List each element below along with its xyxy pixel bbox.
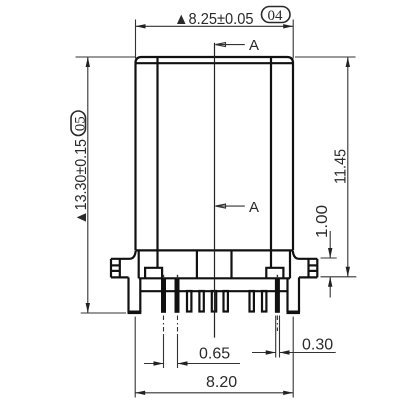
- arrowhead 1.00 lower: [328, 277, 332, 287]
- pedestal left: [145, 268, 162, 279]
- right tab outer edge: [316, 259, 318, 278]
- top dim line 8.25: [136, 25, 294, 27]
- winding flange line left: [156, 58, 158, 268]
- arrowhead 1.00 upper: [328, 248, 332, 258]
- right dim line 11.45: [347, 57, 349, 277]
- left wing bottom: [111, 276, 129, 278]
- left wing top with fillet: [111, 251, 136, 259]
- leader T1: [163, 316, 165, 369]
- arrowhead 0.65 left: [154, 361, 164, 365]
- left leg: [129, 277, 141, 312]
- arrowhead A mid: [216, 204, 226, 208]
- svg-text:1.00: 1.00: [314, 205, 331, 238]
- right leg: [288, 277, 300, 312]
- arrowhead 8.20 right: [283, 391, 293, 395]
- right leg thick bottom: [287, 310, 301, 314]
- left tab inner divider: [119, 259, 121, 278]
- section center line A-A: [214, 43, 216, 338]
- base divider left: [196, 250, 198, 278]
- left dim extension bottom: [81, 312, 126, 314]
- pedestal right: [266, 268, 283, 279]
- wire stub T1: [163, 275, 165, 279]
- pin P6: [212, 291, 216, 312]
- base right edge: [289, 250, 291, 278]
- arrowhead 13.30 bottom: [86, 303, 90, 313]
- winding flange line right: [270, 58, 272, 268]
- svg-text:05: 05: [72, 116, 88, 131]
- A callout top shaft: [216, 44, 245, 46]
- right wing bottom: [299, 276, 317, 278]
- svg-text:0.65: 0.65: [199, 346, 230, 363]
- ext lines 0.30: [276, 316, 280, 358]
- bobbin body outline: [136, 57, 294, 250]
- top dim extension right: [292, 20, 294, 59]
- svg-text:04: 04: [268, 8, 284, 24]
- dim line 1.00 lower shaft: [329, 277, 331, 298]
- dim line 0.30: [252, 352, 336, 354]
- thin pin T2: [175, 278, 180, 313]
- left tab cell line 2: [111, 270, 120, 272]
- A callout mid shaft: [216, 205, 245, 207]
- dim line 0.65: [144, 363, 240, 365]
- svg-text:0.30: 0.30: [302, 337, 333, 354]
- left tab outer edge: [110, 259, 112, 278]
- right tab cell line 1: [309, 264, 318, 266]
- arrowhead 8.20 left: [135, 391, 145, 395]
- left tab cell line 1: [111, 264, 120, 266]
- right dim extension bottom: [321, 276, 357, 278]
- base divider right: [230, 250, 232, 278]
- base left edge: [138, 250, 140, 278]
- wire stub T3: [276, 275, 278, 279]
- arrowhead A top: [216, 43, 226, 47]
- right tab cell line 2: [309, 270, 318, 272]
- bottom dim extension right: [292, 317, 294, 398]
- right wing top with fillet: [293, 251, 318, 259]
- arrowhead 11.45 bottom: [346, 267, 350, 277]
- arrowhead 13.30 top: [86, 57, 90, 67]
- svg-text:11.45: 11.45: [333, 149, 350, 184]
- svg-text:8.20: 8.20: [206, 374, 237, 391]
- right dim extension top: [295, 56, 356, 58]
- left dim line 13.30: [87, 57, 89, 313]
- wire stub T2: [177, 275, 179, 279]
- top dim extension left: [135, 20, 137, 59]
- arrowhead 11.45 top: [346, 57, 350, 67]
- flange top line: [136, 249, 294, 251]
- arrowhead 0.65 right: [178, 361, 188, 365]
- thin pin T3: [275, 278, 280, 313]
- leader T3 center dashes: [276, 316, 278, 332]
- arrowhead 8.25 left: [136, 24, 146, 28]
- pin P9: [262, 291, 266, 312]
- pin P4: [187, 291, 191, 312]
- thin pin T1: [161, 278, 166, 313]
- pin P7: [224, 291, 228, 312]
- arrowhead 8.25 right: [283, 24, 293, 28]
- bottom dim extension left: [134, 317, 136, 398]
- left leg thick bottom: [128, 310, 142, 314]
- balloon 04: [262, 7, 291, 23]
- balloon 05: [71, 111, 86, 136]
- svg-text:▲13.30±0.15: ▲13.30±0.15: [73, 139, 90, 225]
- pin P8: [250, 291, 254, 312]
- svg-text:A: A: [249, 37, 259, 54]
- dim line 1.00 upper shaft: [329, 231, 331, 258]
- leader T2: [177, 316, 179, 369]
- svg-text:▲8.25±0.05: ▲8.25±0.05: [174, 11, 254, 28]
- body inner top line: [137, 62, 293, 64]
- base bottom line: [139, 277, 290, 279]
- pin base step line: [140, 290, 287, 292]
- left dim extension top: [76, 56, 136, 58]
- arrowhead 0.30 left: [266, 350, 276, 354]
- right dim extension mid (1.00 top): [321, 257, 337, 259]
- right tab inner divider: [307, 259, 309, 278]
- svg-text:A: A: [249, 199, 259, 216]
- pin P5: [199, 291, 203, 312]
- arrowhead 0.30 right: [280, 350, 290, 354]
- dim line 8.20: [135, 392, 293, 394]
